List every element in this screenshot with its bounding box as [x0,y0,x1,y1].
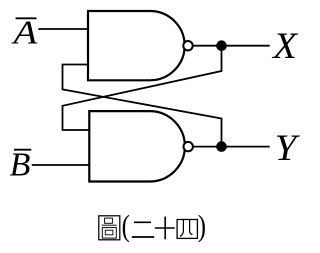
wire A-bar to top gate input [38,28,88,30]
caption: character 二 [132,222,154,237]
wire U1 output to X [193,45,270,47]
svg-text:X: X [271,26,299,67]
wire B-bar to bottom gate input [32,164,90,166]
wire U2 output to Y [193,146,270,148]
feedback wire from node X to bottom gate top input [63,46,222,130]
feedback wire from node Y to top gate bottom input [63,65,222,147]
NAND gate U2 output bubble [184,142,193,151]
junction node Y (solder dot) [216,141,227,152]
caption: character 四 [177,220,197,239]
NAND gate U2 (bottom) body [89,111,185,181]
svg-text:): ) [198,210,206,244]
NAND gate U1 output bubble [183,41,192,50]
NAND gate U1 (top) body [88,11,185,80]
caption: character 十 [155,217,175,240]
svg-text:B: B [10,146,31,183]
svg-text:(: ( [122,210,130,244]
label A-bar (input A complement) [11,14,38,51]
label B-bar (input B complement) [10,146,32,183]
caption: character 圖 [99,216,120,240]
junction node X (solder dot) [216,40,227,51]
